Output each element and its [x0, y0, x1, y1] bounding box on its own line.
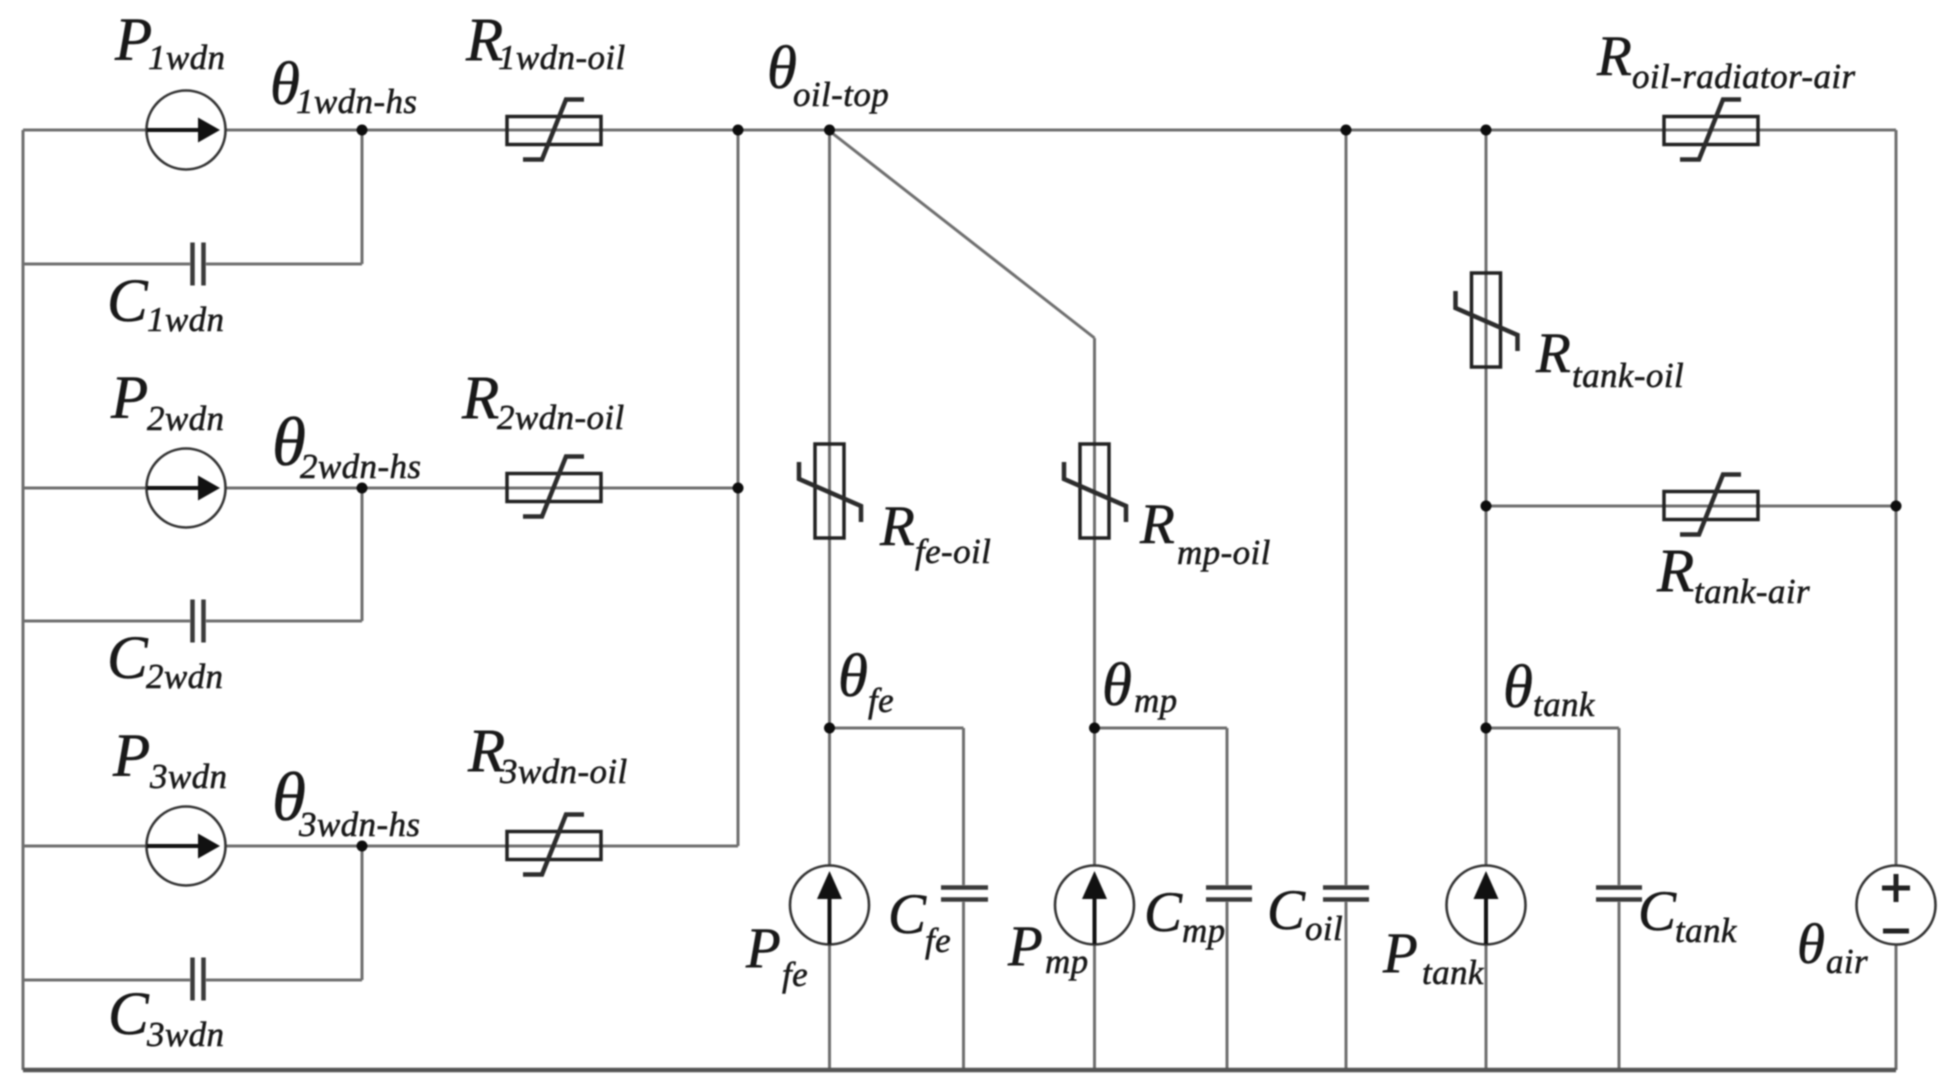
- svg-text:R: R: [1139, 493, 1175, 556]
- svg-text:tank: tank: [1675, 911, 1738, 950]
- svg-text:3wdn-oil: 3wdn-oil: [499, 752, 628, 791]
- label P_1wdn: [114, 7, 225, 77]
- resistor R_tank-oil: [1456, 273, 1518, 367]
- svg-text:C: C: [888, 883, 927, 946]
- wire top bus: [23, 129, 1896, 132]
- node theta_1wdn-hs dot: [357, 125, 368, 136]
- svg-text:fe: fe: [925, 921, 951, 960]
- svg-text:mp: mp: [1045, 942, 1089, 981]
- svg-text:1wdn: 1wdn: [147, 300, 224, 339]
- node bus-top dot: [733, 125, 744, 136]
- wire C_oil branch: [1345, 130, 1348, 1070]
- wire diagonal oil-top to mp: [830, 131, 1095, 338]
- svg-text:oil-top: oil-top: [793, 75, 889, 114]
- svg-text:R: R: [1596, 25, 1632, 88]
- label C_2wdn: [107, 625, 223, 696]
- node tank top dot: [1481, 125, 1492, 136]
- voltage source theta_air: [1857, 866, 1936, 945]
- resistor R_tank-air: [1664, 475, 1758, 535]
- svg-text:R: R: [1656, 538, 1694, 605]
- capacitor C1wdn: [193, 243, 204, 286]
- wire row2: [23, 487, 738, 490]
- svg-text:2wdn-hs: 2wdn-hs: [300, 447, 421, 486]
- svg-text:1wdn-hs: 1wdn-hs: [296, 82, 417, 121]
- svg-text:P: P: [114, 7, 152, 74]
- svg-text:C: C: [107, 625, 149, 692]
- wire C3wdn row: [23, 846, 362, 980]
- svg-text:θ: θ: [1102, 652, 1132, 719]
- node tank-air right dot: [1891, 501, 1902, 512]
- resistor R_fe-oil: [799, 444, 861, 538]
- svg-text:2wdn-oil: 2wdn-oil: [497, 398, 625, 437]
- capacitor C_fe: [941, 888, 988, 900]
- node theta_fe dot: [824, 723, 835, 734]
- svg-text:tank-oil: tank-oil: [1572, 356, 1684, 395]
- label C_tank: [1638, 880, 1738, 950]
- label P_3wdn: [112, 723, 227, 796]
- node theta_3wdn-hs dot: [357, 841, 368, 852]
- wire theta_tank stub: [1486, 728, 1619, 1070]
- node tank-air left dot: [1481, 501, 1492, 512]
- svg-text:P: P: [1007, 915, 1043, 978]
- label C_3wdn: [108, 981, 224, 1054]
- wire theta_fe stub: [830, 728, 964, 1070]
- label R_2wdn-oil: [461, 365, 625, 437]
- svg-text:C: C: [1144, 881, 1183, 944]
- svg-text:tank: tank: [1533, 685, 1596, 724]
- current source P1wdn: [147, 91, 226, 170]
- svg-text:mp-oil: mp-oil: [1177, 533, 1271, 572]
- label R_mp-oil: [1139, 493, 1271, 572]
- svg-text:2wdn: 2wdn: [146, 657, 223, 696]
- capacitor C_oil: [1323, 888, 1369, 900]
- wire mp branch: [1093, 338, 1096, 1070]
- node theta_2wdn-hs dot: [357, 483, 368, 494]
- label theta_air: [1797, 913, 1868, 981]
- resistor R_mp-oil: [1064, 444, 1126, 538]
- label C_mp: [1144, 881, 1226, 950]
- svg-text:P: P: [110, 365, 148, 432]
- label theta_tank: [1503, 654, 1596, 724]
- svg-text:P: P: [1382, 922, 1418, 985]
- wire C2wdn row: [23, 488, 362, 621]
- capacitor C_tank: [1596, 888, 1642, 900]
- label R_tank-oil: [1535, 322, 1684, 395]
- svg-text:fe: fe: [868, 681, 894, 720]
- svg-text:1wdn: 1wdn: [148, 38, 225, 77]
- wire vertical bus: [737, 130, 740, 846]
- svg-text:2wdn: 2wdn: [147, 399, 224, 438]
- svg-text:3wdn: 3wdn: [149, 757, 227, 796]
- wire tank branch: [1485, 130, 1488, 1070]
- svg-text:mp: mp: [1182, 911, 1226, 950]
- label theta_3wdn-hs: [272, 759, 420, 844]
- label R_1wdn-oil: [465, 7, 626, 77]
- label P_mp: [1007, 915, 1089, 981]
- svg-text:P: P: [112, 723, 150, 790]
- wire left rail: [22, 130, 25, 1070]
- svg-text:C: C: [108, 981, 150, 1048]
- label theta_2wdn-hs: [272, 404, 421, 486]
- current source P3wdn: [147, 807, 226, 886]
- svg-text:R: R: [461, 365, 499, 432]
- label theta_1wdn-hs: [270, 51, 417, 121]
- capacitor C_mp: [1206, 888, 1252, 900]
- resistor R3wdn-oil: [507, 815, 601, 875]
- node theta_tank dot: [1481, 723, 1492, 734]
- wire bottom rail: [23, 1068, 1896, 1073]
- label C_oil: [1267, 879, 1343, 948]
- label P_2wdn: [110, 365, 224, 438]
- wire C1wdn row: [23, 130, 362, 264]
- svg-text:C: C: [1267, 879, 1306, 942]
- node bus-row2 dot: [733, 483, 744, 494]
- resistor R_oil-radiator-air: [1664, 100, 1758, 160]
- svg-text:3wdn: 3wdn: [146, 1015, 224, 1054]
- label theta_oil-top: [767, 35, 889, 114]
- svg-text:C: C: [107, 268, 149, 335]
- svg-text:1wdn-oil: 1wdn-oil: [498, 38, 626, 77]
- capacitor C2wdn: [193, 600, 204, 643]
- svg-text:C: C: [1638, 880, 1677, 943]
- resistor R2wdn-oil: [507, 457, 601, 517]
- svg-text:3wdn-hs: 3wdn-hs: [298, 805, 420, 844]
- svg-text:fe-oil: fe-oil: [915, 532, 991, 571]
- label C_fe: [888, 883, 951, 960]
- current source P_fe: [790, 866, 869, 945]
- svg-text:P: P: [745, 917, 781, 980]
- wire theta_mp stub: [1095, 728, 1228, 1070]
- label R_tank-air: [1656, 538, 1810, 611]
- wire right rail: [1895, 130, 1898, 1070]
- wire tank-air row: [1486, 505, 1896, 508]
- current source P2wdn: [147, 449, 226, 528]
- svg-text:oil-radiator-air: oil-radiator-air: [1632, 57, 1856, 96]
- svg-text:tank-air: tank-air: [1694, 572, 1810, 611]
- svg-text:θ: θ: [838, 643, 868, 710]
- label theta_mp: [1102, 652, 1178, 720]
- svg-text:fe: fe: [782, 955, 808, 994]
- svg-text:R: R: [1535, 322, 1571, 385]
- label P_tank: [1382, 922, 1485, 992]
- node theta_oil-top dot: [824, 125, 835, 136]
- current source P_mp: [1055, 866, 1134, 945]
- svg-text:tank: tank: [1422, 953, 1485, 992]
- label R_oil-radiator-air: [1596, 25, 1856, 96]
- svg-text:air: air: [1826, 942, 1868, 981]
- label theta_fe: [838, 643, 894, 720]
- resistor R1wdn-oil: [507, 100, 601, 160]
- svg-text:R: R: [879, 495, 915, 558]
- node theta_mp dot: [1089, 723, 1100, 734]
- svg-text:θ: θ: [1797, 913, 1825, 976]
- label C_1wdn: [107, 268, 224, 339]
- svg-text:θ: θ: [1503, 654, 1533, 721]
- current source P_tank: [1447, 866, 1526, 945]
- node C_oil top dot: [1341, 125, 1352, 136]
- capacitor C3wdn: [193, 958, 204, 1001]
- wire fe branch: [828, 130, 831, 1070]
- label P_fe: [745, 917, 808, 994]
- label R_3wdn-oil: [467, 718, 628, 791]
- label R_fe-oil: [879, 495, 991, 571]
- wire row3: [23, 845, 738, 848]
- svg-text:mp: mp: [1134, 681, 1178, 720]
- svg-text:oil: oil: [1305, 909, 1343, 948]
